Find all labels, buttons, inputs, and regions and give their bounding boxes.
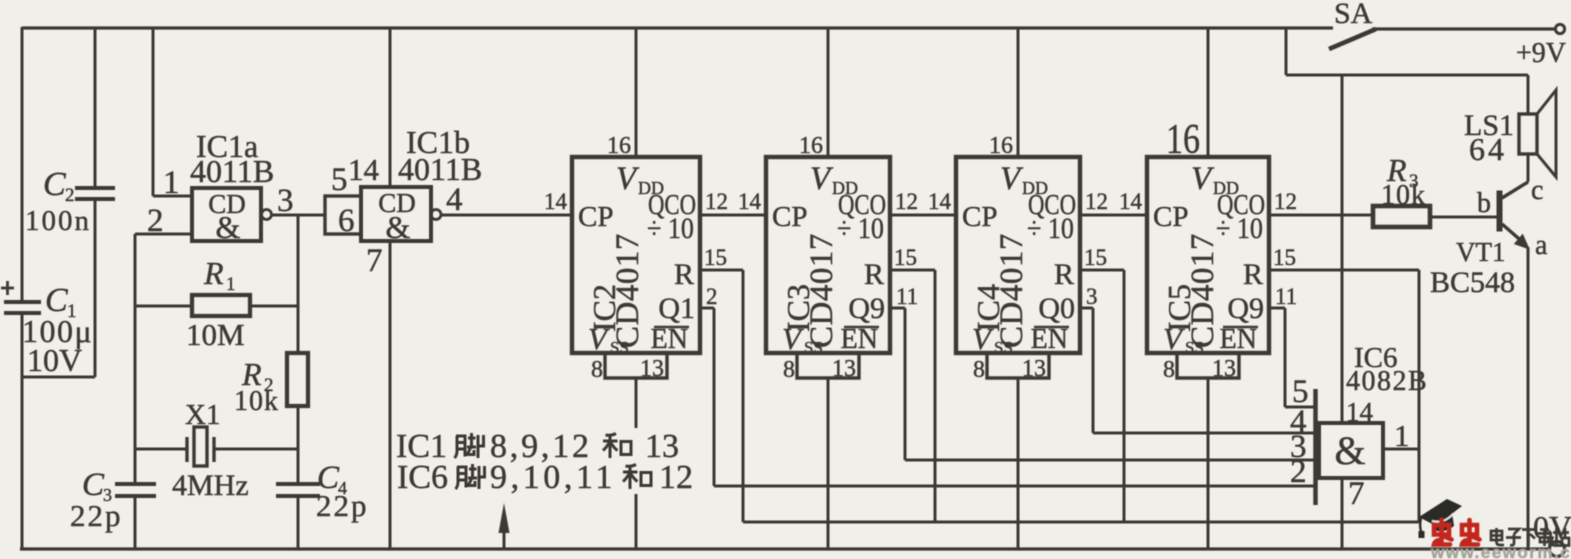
wire IC3 Q9 bus to IC6 pin3 xyxy=(905,459,1316,462)
IC4 CD4017 counter body xyxy=(956,157,1080,353)
svg-text:3: 3 xyxy=(277,183,294,219)
svg-text:X1: X1 xyxy=(185,399,220,431)
svg-text:16: 16 xyxy=(989,133,1013,159)
glyph jiao (pin) line 1 xyxy=(455,433,484,458)
wire C2 bottom lead down xyxy=(94,201,97,377)
wire C2 top lead from rail xyxy=(94,28,97,187)
wire reset bus horizontal xyxy=(743,521,1419,524)
wire IC4 R pin15 stub xyxy=(1080,269,1124,272)
svg-text:SA: SA xyxy=(1334,0,1373,30)
svg-text:R: R xyxy=(1054,258,1074,291)
svg-text:12: 12 xyxy=(895,189,918,214)
svg-text:10k: 10k xyxy=(234,386,279,417)
wire IC6 output pin1 xyxy=(1383,448,1419,451)
svg-text:16: 16 xyxy=(1166,117,1200,163)
svg-text:R: R xyxy=(203,255,224,291)
svg-text:VT1: VT1 xyxy=(1456,237,1506,267)
svg-text:10k: 10k xyxy=(1381,180,1426,211)
wire IC2 R pin15 drop xyxy=(742,270,745,522)
svg-text:a: a xyxy=(1535,230,1548,261)
svg-text:EN: EN xyxy=(651,324,688,355)
wire IC5 Q9 pin11 drop xyxy=(1284,308,1287,407)
inverter bubble of IC1b output xyxy=(431,210,441,220)
wire IC1b pin7 to 0V rail xyxy=(389,241,392,550)
svg-text:CD4017: CD4017 xyxy=(610,233,646,348)
svg-text:13: 13 xyxy=(640,356,664,382)
wire IC3 Q9 pin stub xyxy=(890,307,905,310)
resistor R1 body xyxy=(192,295,250,316)
crystal X1 left plate xyxy=(185,437,188,462)
svg-text:13: 13 xyxy=(832,356,856,382)
IC3 CD4017 counter body xyxy=(766,157,890,353)
wire IC1a output pin3 to IC1b input xyxy=(272,214,326,217)
svg-text:7: 7 xyxy=(1348,476,1365,512)
svg-text:IC6: IC6 xyxy=(397,459,448,496)
wire top +9V supply rail (left of switch SA) xyxy=(22,26,1333,29)
wire left border lower segment below C1 xyxy=(21,313,24,550)
svg-text:÷ 10: ÷ 10 xyxy=(1216,212,1263,245)
svg-text:1: 1 xyxy=(226,274,236,295)
wire node B vertical (pin3 / R1 right / R2 / C4 column) xyxy=(297,215,300,353)
wire IC6 pin14 VDD from second rail xyxy=(1341,75,1344,423)
wire IC3 pin16 VDD to +9V rail xyxy=(827,28,830,157)
svg-text:CD4017: CD4017 xyxy=(1185,233,1221,348)
svg-text:5: 5 xyxy=(331,162,348,198)
svg-text:4011B: 4011B xyxy=(190,153,274,189)
transistor VT1 emitter lead with arrow xyxy=(1502,224,1526,245)
wire IC1a pin1 from top rail xyxy=(152,28,155,196)
glyph he (and) line 1 xyxy=(603,434,631,459)
ground tab of IC3 pins 8/13 xyxy=(797,353,859,378)
watermark cap tassel xyxy=(1420,518,1421,533)
svg-text:R: R xyxy=(1243,258,1263,291)
wire C2 branch to left border xyxy=(22,376,95,379)
svg-text:22p: 22p xyxy=(70,498,123,533)
wire IC2 Q1 bus to IC6 pin2 xyxy=(714,485,1316,488)
svg-text:EN: EN xyxy=(1031,324,1068,355)
svg-text:Q0: Q0 xyxy=(1038,292,1075,325)
svg-text:2: 2 xyxy=(1290,454,1307,490)
svg-text:15: 15 xyxy=(1273,245,1296,270)
wire IC2 Q1 pin2 drop xyxy=(713,308,716,486)
wire IC5 Q9 pin stub xyxy=(1269,307,1285,310)
capacitor C2 plates xyxy=(75,186,115,190)
wire R3 to VT1 base xyxy=(1430,216,1497,219)
svg-text:9,10,11: 9,10,11 xyxy=(490,459,616,496)
wire IC4 Q0 bus to IC6 pin4 xyxy=(1093,432,1316,435)
svg-text:1: 1 xyxy=(163,165,180,201)
gate IC6 4082B AND body xyxy=(1319,423,1383,478)
wire R2 bottom lead xyxy=(297,406,300,449)
svg-text:10V: 10V xyxy=(27,342,82,378)
watermark chong chong red characters xyxy=(1434,520,1452,545)
svg-text:4: 4 xyxy=(446,182,463,218)
wire R1 left lead xyxy=(135,305,192,308)
svg-text:&: & xyxy=(216,209,241,245)
gate IC1a 4011B NAND body xyxy=(192,188,261,241)
svg-text:4011B: 4011B xyxy=(398,151,482,187)
svg-text:14: 14 xyxy=(1119,189,1143,214)
wire IC4 QCO pin12 to IC5 CP pin14 xyxy=(1080,214,1147,217)
svg-text:÷ 10: ÷ 10 xyxy=(837,212,884,245)
wire IC2 QCO pin12 to IC3 CP pin14 xyxy=(700,214,766,217)
wire C4 top lead xyxy=(297,449,300,484)
wire IC5 R pin15 stub xyxy=(1269,269,1419,272)
wire IC6 pin7 to 0V rail xyxy=(1341,478,1344,550)
resistor R3 body xyxy=(1373,206,1430,227)
svg-text:8: 8 xyxy=(973,357,985,383)
wire IC3 R pin15 stub xyxy=(890,269,935,272)
svg-text:2: 2 xyxy=(147,203,164,239)
speaker LS1 body xyxy=(1519,114,1537,154)
terminal +9V circle xyxy=(1555,24,1564,33)
svg-text:12: 12 xyxy=(659,459,693,496)
svg-text:15: 15 xyxy=(1084,245,1107,270)
crystal X1 right plate xyxy=(212,437,215,462)
svg-text:CP: CP xyxy=(1153,201,1188,233)
svg-text:Q1: Q1 xyxy=(658,292,695,325)
polarity + of C1 xyxy=(1,287,14,290)
svg-text:4MHz: 4MHz xyxy=(172,469,249,502)
svg-text:1: 1 xyxy=(1394,418,1410,453)
wire speaker bottom to collector xyxy=(1527,154,1530,182)
wire speaker top lead xyxy=(1527,75,1530,114)
svg-text:R: R xyxy=(674,258,694,291)
IC5 CD4017 counter body xyxy=(1147,157,1269,353)
ground tab of IC4 pins 8/13 xyxy=(987,353,1049,378)
svg-text:+9V: +9V xyxy=(1516,38,1566,69)
svg-text:Q9: Q9 xyxy=(848,292,885,325)
terminal 0V circle xyxy=(1550,542,1565,557)
inverter bubble of IC1a output xyxy=(262,210,272,220)
svg-text:4082B: 4082B xyxy=(1346,366,1428,397)
wire IC1b pin14 from top rail xyxy=(389,28,392,187)
svg-text:EN: EN xyxy=(841,324,878,355)
wire IC5 pin16 VDD to +9V rail xyxy=(1207,28,1210,157)
watermark graduation cap xyxy=(1419,499,1462,526)
wire R1 right lead xyxy=(250,305,298,308)
crystal X1 body xyxy=(194,427,207,466)
wire IC4 R pin15 drop xyxy=(1123,270,1126,522)
svg-text:7: 7 xyxy=(366,243,383,279)
wire IC2 pin16 VDD to +9V rail xyxy=(635,28,638,157)
svg-text:CD4017: CD4017 xyxy=(804,233,840,348)
transistor VT1 base bar xyxy=(1497,191,1502,231)
glyph he (and) line 2 xyxy=(623,465,651,490)
wire IC1b output pin4 to IC2 CP xyxy=(441,214,572,217)
svg-text:2: 2 xyxy=(65,185,75,206)
wire IC3 R pin15 drop xyxy=(934,270,937,522)
wire node A lower segment below C3 xyxy=(134,496,137,550)
input tie box pins 5/6 of IC1b xyxy=(325,196,361,234)
svg-text:R: R xyxy=(864,258,884,291)
wire IC4 pin16 VDD to +9V rail xyxy=(1017,28,1020,157)
svg-text:12: 12 xyxy=(1085,189,1108,214)
svg-text:14: 14 xyxy=(1346,397,1374,427)
svg-text:15: 15 xyxy=(704,245,727,270)
annotation pointer arrow xyxy=(503,530,506,549)
svg-text:12: 12 xyxy=(1274,189,1297,214)
wire IC3 QCO pin12 to IC4 CP pin14 xyxy=(890,214,956,217)
capacitor C3 plates xyxy=(115,482,156,486)
ground tab of IC2 pins 8/13 xyxy=(605,353,667,378)
wire IC2 pin13 tab to 0V rail (upper segment, gap at text) xyxy=(635,378,638,428)
svg-text:8: 8 xyxy=(591,357,603,383)
wire bottom 0V rail xyxy=(20,547,1549,550)
svg-text:C: C xyxy=(43,166,66,203)
svg-text:14: 14 xyxy=(348,152,380,187)
svg-text:14: 14 xyxy=(928,189,952,214)
gate IC1b 4011B NAND body xyxy=(361,187,431,241)
svg-text:14: 14 xyxy=(738,189,762,214)
switch SA blade xyxy=(1329,29,1376,49)
svg-text:3: 3 xyxy=(1086,284,1098,309)
svg-text:100n: 100n xyxy=(25,205,91,237)
svg-text:13: 13 xyxy=(1212,356,1236,382)
IC2 CD4017 counter body xyxy=(572,157,700,353)
wire IC3 Q9 pin11 drop xyxy=(904,308,907,460)
svg-text:10M: 10M xyxy=(186,317,245,352)
svg-text:BC548: BC548 xyxy=(1430,266,1515,299)
wire +9V drop before SA xyxy=(1285,28,1288,75)
gate IC6 4082B input bar xyxy=(1313,389,1318,505)
wire top rail right of SA to +9V terminal xyxy=(1372,27,1555,30)
svg-text:11: 11 xyxy=(1275,284,1297,309)
wire C4 bottom lead to 0V rail xyxy=(297,496,300,550)
svg-text:c: c xyxy=(1531,175,1543,206)
wire node A vertical (pin2 / R1 / X1 / C3 column) xyxy=(134,234,137,484)
ground tab of IC5 pins 8/13 xyxy=(1177,353,1239,378)
svg-text:8: 8 xyxy=(1163,357,1175,383)
wire IC2 R pin15 stub xyxy=(700,269,743,272)
svg-text:16: 16 xyxy=(799,133,823,159)
svg-text:12: 12 xyxy=(705,189,728,214)
resistor R2 body xyxy=(287,353,308,406)
crystal X1 wire right xyxy=(214,448,298,451)
svg-text:CP: CP xyxy=(578,201,613,233)
svg-text:14: 14 xyxy=(544,189,568,214)
wire left border (battery branch) xyxy=(21,27,24,302)
svg-text:2: 2 xyxy=(706,284,718,309)
svg-text:www.eeworm.cω: www.eeworm.cω xyxy=(1430,543,1571,559)
svg-text:64: 64 xyxy=(1469,131,1507,167)
svg-text:÷ 10: ÷ 10 xyxy=(647,212,694,245)
capacitor C1 100u/10V plates xyxy=(4,300,41,304)
wire IC5 pin13 tab to 0V rail xyxy=(1207,378,1210,550)
crystal X1 wire left xyxy=(135,448,187,451)
svg-text:22p: 22p xyxy=(316,488,369,523)
wire IC1a pin2 input xyxy=(135,233,192,236)
svg-text:EN: EN xyxy=(1220,324,1257,355)
svg-text:8: 8 xyxy=(783,357,795,383)
svg-text:16: 16 xyxy=(607,133,631,159)
transistor VT1 collector lead xyxy=(1502,182,1528,198)
glyph jiao (pin) line 2 xyxy=(456,464,485,489)
speaker LS1 horn xyxy=(1537,90,1556,177)
wire IC4 pin13 tab to 0V rail xyxy=(1017,378,1020,550)
svg-text:&: & xyxy=(1334,428,1365,473)
capacitor C4 plates xyxy=(276,482,320,486)
svg-text:15: 15 xyxy=(894,245,917,270)
wire VT1 emitter to 0V rail xyxy=(1527,247,1530,550)
wire IC3 pin13 tab to 0V rail xyxy=(827,378,830,550)
svg-text:13: 13 xyxy=(1022,356,1046,382)
wire IC5 Q9 to IC6 pin5 xyxy=(1285,406,1316,409)
wire IC2 pin13 tab to 0V rail (lower segment) xyxy=(635,494,638,550)
wire IC5 R pin15 / IC6 pin1 vertical xyxy=(1418,270,1421,522)
wire IC4 Q0 pin stub xyxy=(1080,307,1093,310)
svg-text:CD4017: CD4017 xyxy=(994,233,1030,348)
wire IC2 Q1 pin stub xyxy=(700,307,714,310)
wire IC4 Q0 pin3 drop xyxy=(1092,308,1095,433)
svg-text:CP: CP xyxy=(962,201,997,233)
svg-text:&: & xyxy=(386,209,411,245)
svg-text:CP: CP xyxy=(772,201,807,233)
svg-text:11: 11 xyxy=(896,284,918,309)
wire IC5 QCO pin12 to R3 xyxy=(1269,214,1373,217)
svg-text:b: b xyxy=(1477,188,1491,219)
svg-text:÷ 10: ÷ 10 xyxy=(1027,212,1074,245)
svg-text:Q9: Q9 xyxy=(1227,292,1264,325)
svg-text:6: 6 xyxy=(338,203,355,239)
watermark site name characters xyxy=(1491,528,1504,545)
wire second +9V rail xyxy=(1286,74,1528,77)
